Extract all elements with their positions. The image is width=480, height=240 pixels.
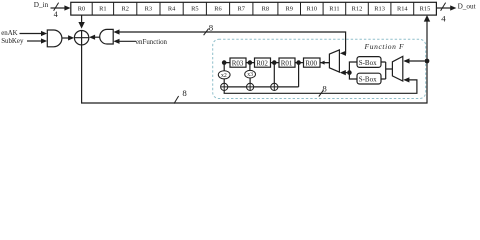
node n3 xyxy=(272,60,277,65)
wire SubKey xyxy=(27,40,42,42)
node R15 column xyxy=(425,59,430,64)
wire n4 down to chain xyxy=(298,63,300,87)
node n1 xyxy=(222,60,227,65)
and gate G2 xyxy=(100,29,113,44)
wire X2 out to MUX2 xyxy=(224,80,417,93)
wire n2 to x3 xyxy=(249,63,251,71)
node S-box out xyxy=(347,70,352,75)
arrow D_out xyxy=(450,5,456,10)
wire node to S-Box1 xyxy=(349,62,357,73)
arrow into X1 right xyxy=(89,35,95,40)
D_out wire xyxy=(436,7,450,9)
svg-text:SubKey: SubKey xyxy=(1,38,24,45)
svg-text:8: 8 xyxy=(209,22,214,32)
arrow into M1 lower input xyxy=(340,70,346,75)
svg-text:R00: R00 xyxy=(305,60,317,68)
wire n3 down xyxy=(273,63,275,84)
multiplier x3 xyxy=(245,70,256,78)
wire X1 out down to feedback xyxy=(82,22,427,104)
wire node to S-Box2 xyxy=(349,73,357,79)
svg-text:R10: R10 xyxy=(306,6,317,13)
bus slash 8 xyxy=(204,29,209,36)
svg-text:R9: R9 xyxy=(285,6,292,13)
svg-text:R01: R01 xyxy=(281,60,293,68)
svg-text:x3: x3 xyxy=(247,72,253,78)
wire S-Box bus xyxy=(381,62,392,79)
svg-text:S-Box: S-Box xyxy=(359,59,377,67)
byte register R01 xyxy=(279,58,295,67)
bus slash D_in xyxy=(54,3,59,11)
svg-text:R2: R2 xyxy=(121,6,128,13)
mux M2 xyxy=(392,56,402,81)
wire chain row xyxy=(224,62,329,64)
arrow into MUX2 lower input xyxy=(403,77,409,82)
svg-text:R13: R13 xyxy=(374,6,385,13)
svg-text:R8: R8 xyxy=(262,6,269,13)
arrow down into XOR xyxy=(78,22,84,29)
svg-text:enAK: enAK xyxy=(1,30,17,37)
arrow into R01 xyxy=(295,61,299,65)
byte register R03 xyxy=(230,58,246,67)
svg-text:R3: R3 xyxy=(145,6,152,13)
wire enFunction xyxy=(119,40,136,42)
svg-text:D_in: D_in xyxy=(34,1,49,9)
wire G1 out xyxy=(62,37,69,39)
svg-text:R5: R5 xyxy=(191,6,198,13)
svg-text:R03: R03 xyxy=(232,60,244,68)
wire R15 node to M2 xyxy=(405,60,425,62)
arrow into M2 upper input xyxy=(403,58,409,63)
wire n1 to x2 xyxy=(223,63,225,71)
svg-text:8: 8 xyxy=(322,83,327,93)
svg-text:R6: R6 xyxy=(214,6,221,13)
wire chain xors xyxy=(228,86,299,88)
wire D_in xyxy=(51,7,66,9)
svg-text:R12: R12 xyxy=(352,6,363,13)
svg-text:x2: x2 xyxy=(221,73,227,79)
arrow into G1 bottom xyxy=(41,38,47,43)
svg-text:R4: R4 xyxy=(168,6,176,13)
wire enAK xyxy=(20,33,42,35)
byte register R00 xyxy=(304,58,321,67)
wire R0 down xyxy=(81,15,83,22)
wire x3 to xor xyxy=(249,78,251,83)
wire M1 out xyxy=(325,62,329,64)
arrow into R0 xyxy=(64,5,70,10)
bus slash 8 xyxy=(319,90,324,96)
xor X3 xyxy=(247,83,254,90)
byte register R02 xyxy=(255,58,271,67)
svg-text:R1: R1 xyxy=(99,6,106,13)
arrow up into R15 xyxy=(424,15,430,22)
arrow into R00 xyxy=(320,61,324,65)
svg-text:R15: R15 xyxy=(420,6,431,13)
arrow into G2 input top xyxy=(113,29,119,34)
wire x2 to xor xyxy=(223,79,225,83)
wire F-out bus to G2 xyxy=(119,32,346,53)
svg-text:8: 8 xyxy=(182,88,187,98)
S-Box 2 xyxy=(357,73,381,84)
dashed Function F box xyxy=(213,39,426,98)
svg-text:enFunction: enFunction xyxy=(136,39,168,46)
S-Box 1 xyxy=(357,57,381,68)
bus slash D_out xyxy=(441,3,446,11)
svg-text:R7: R7 xyxy=(237,6,245,13)
arrow into G1 top xyxy=(41,31,47,36)
svg-text:R11: R11 xyxy=(329,6,339,13)
svg-text:D_out: D_out xyxy=(458,2,476,10)
xor X1 (AddKey) xyxy=(74,31,88,45)
svg-text:R02: R02 xyxy=(256,60,268,68)
wire node to M1 lower input xyxy=(345,72,348,74)
register labels xyxy=(78,6,431,13)
xor X2 xyxy=(221,83,228,90)
svg-text:4: 4 xyxy=(54,10,58,19)
svg-text:Function F: Function F xyxy=(364,42,405,51)
and gate G1 xyxy=(47,30,62,47)
svg-text:R0: R0 xyxy=(78,6,85,13)
arrow into G2 input bottom xyxy=(113,39,119,44)
wire G2 out xyxy=(95,36,100,38)
arrow into R03 xyxy=(246,61,250,65)
register row R0-R15 xyxy=(71,2,437,15)
node n2 xyxy=(248,60,253,65)
arrow into X1 left xyxy=(68,35,74,40)
node n4 xyxy=(296,60,301,65)
arrow into R02 xyxy=(271,61,275,65)
xor X4 xyxy=(271,83,278,90)
svg-text:4: 4 xyxy=(441,14,446,24)
bus slash 8 feedback xyxy=(174,96,179,104)
mux M1 xyxy=(329,50,339,72)
svg-text:S-Box: S-Box xyxy=(359,75,377,83)
arrow into MUX1 select input xyxy=(340,51,346,56)
multiplier x2 xyxy=(218,71,230,79)
svg-text:R14: R14 xyxy=(397,6,408,13)
